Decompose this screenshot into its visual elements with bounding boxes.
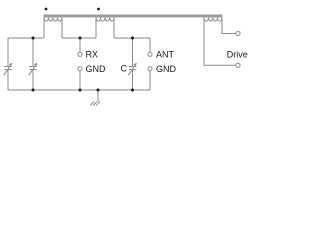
- winding L1: [44, 18, 62, 22]
- wire GND right stub: [149, 71, 151, 90]
- wire cap C branch down: [132, 38, 134, 66]
- ferrite core bar: [44, 15, 223, 18]
- wire bottom rail: [8, 89, 150, 91]
- wire L1 left leg: [43, 18, 45, 39]
- wire L3 left leg to Drive bottom: [204, 18, 236, 66]
- wire GND left stub: [79, 71, 81, 90]
- capacitor C plates: [129, 67, 137, 70]
- terminal Drive bottom: [236, 63, 240, 67]
- wire ground stub: [97, 90, 99, 102]
- junction dot RX tap: [79, 37, 82, 40]
- wire second branch down: [32, 38, 34, 66]
- svg-text:GND: GND: [86, 64, 107, 74]
- svg-text:Drive: Drive: [227, 49, 248, 59]
- svg-text:RX: RX: [86, 49, 99, 59]
- winding L3: [204, 18, 222, 22]
- terminal GND left: [78, 67, 82, 71]
- capacitor C arrow: [128, 64, 136, 75]
- wire below C: [132, 70, 134, 90]
- capacitor CT1 arrow: [4, 64, 12, 75]
- terminal Drive top: [236, 31, 240, 35]
- wire RX drop: [79, 38, 81, 52]
- wire below CT2: [32, 70, 34, 90]
- junction dot rail GND left: [79, 89, 82, 92]
- junction dot rail ground: [97, 89, 100, 92]
- capacitor CT2 arrow: [29, 64, 37, 75]
- wire left branch down: [7, 38, 9, 66]
- capacitor CT2 plates: [29, 67, 37, 70]
- capacitor CT1 plates: [4, 67, 12, 70]
- junction dot node A / CT2: [32, 37, 35, 40]
- svg-text:GND: GND: [156, 64, 177, 74]
- svg-text:ANT: ANT: [156, 49, 175, 59]
- phasing dot L2: [97, 8, 100, 11]
- wire L2 right leg: [113, 18, 115, 39]
- junction dot rail CT2: [32, 89, 35, 92]
- wire below CT1: [7, 70, 9, 90]
- wire node B (RX tap): [62, 37, 96, 39]
- junction dot rail C: [131, 89, 134, 92]
- wire node C (ANT tap): [114, 37, 150, 39]
- wire ANT drop: [149, 38, 151, 52]
- wire L1 right leg: [61, 18, 63, 39]
- ground symbol: [90, 102, 100, 106]
- wire L2 left leg: [95, 18, 97, 39]
- wire L3 right leg to Drive top: [222, 18, 236, 34]
- winding L2: [96, 18, 114, 22]
- terminal RX: [78, 52, 82, 56]
- svg-text:C: C: [121, 63, 128, 73]
- phasing dot L1: [45, 8, 48, 11]
- junction dot ANT tap / C: [131, 37, 134, 40]
- terminal GND right: [148, 67, 152, 71]
- terminal ANT: [148, 52, 152, 56]
- wire node A top: [8, 37, 44, 39]
